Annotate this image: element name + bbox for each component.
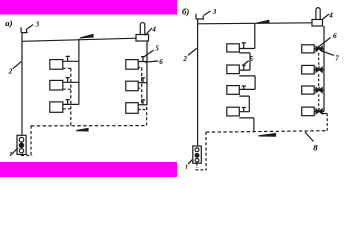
return stub a-L1 — [63, 67, 71, 69]
valve a-L1 — [66, 56, 70, 61]
svg-text:а): а) — [5, 18, 12, 28]
svg-text:1: 1 — [9, 151, 12, 158]
expansion tank 4 (b) — [312, 20, 323, 27]
svg-text:2: 2 — [182, 55, 187, 63]
svg-text:7: 7 — [335, 55, 339, 63]
svg-text:4: 4 — [151, 25, 156, 33]
pump circle bottom (a) — [19, 149, 23, 153]
radiator b-M1 — [227, 44, 240, 52]
leader to label 7 (b) — [320, 50, 334, 55]
heat point unit 1 (a) — [17, 135, 26, 154]
pump circle middle filled (b) — [195, 154, 199, 158]
top supply main (a) — [22, 38, 136, 41]
pump circle middle filled (a) — [19, 143, 23, 147]
pipe b-R4 — [314, 110, 324, 112]
pipe a-L2 — [63, 81, 79, 83]
bowtie valve b-R1 — [316, 46, 322, 52]
magenta highlight bar top — [0, 0, 177, 15]
leader to label 1 (a) — [12, 148, 19, 155]
radiator b-M2 — [227, 65, 240, 74]
dashed bottom link to unit (b) — [195, 169, 207, 171]
return stub a-L3 — [63, 108, 71, 110]
leader to label 6 (a) — [145, 61, 159, 62]
radiator b-R1 — [302, 45, 315, 53]
bowtie valve b-R2 — [316, 66, 322, 72]
pipe a-R2 — [138, 82, 147, 84]
radiator a-L3 — [50, 102, 63, 112]
svg-text:6: 6 — [333, 31, 337, 40]
return below b-R4 — [321, 113, 327, 115]
leader to label 1 (b) — [188, 160, 192, 164]
air collector 3 (diagram a) — [21, 27, 28, 32]
leader to label 5 (b) — [243, 61, 249, 66]
main riser 2 (a) — [21, 33, 23, 136]
pipe a-L3 — [63, 103, 79, 105]
svg-text:5: 5 — [155, 45, 159, 53]
svg-text:1: 1 — [185, 163, 188, 170]
pump circle bottom (b) — [195, 158, 199, 162]
leader to label 4 (b) — [322, 14, 329, 20]
slope wedge on return main (b) — [259, 134, 276, 137]
leader to label 4 (a) — [145, 28, 152, 35]
valve b-M3 — [242, 86, 246, 89]
pump circle top (a) — [19, 137, 24, 142]
valve b-M1 — [242, 43, 246, 49]
svg-text:3: 3 — [212, 8, 217, 16]
slope wedge on supply main (a) — [80, 35, 93, 38]
valve a-R3 — [141, 100, 145, 105]
right supply riser (a) — [146, 41, 148, 105]
dashed return segs b-R — [318, 53, 320, 67]
bowtie valve b-R3 — [316, 87, 322, 93]
return stub a-L2 — [63, 88, 71, 90]
middle supply riser (a) — [78, 39, 80, 105]
dashed return drop below a-R3 — [146, 107, 148, 125]
dashed return main (b) — [206, 131, 327, 133]
magenta highlight bar bottom — [0, 162, 177, 177]
dashed return riser a-L — [70, 68, 72, 126]
return stub a-R1 — [138, 67, 142, 69]
radiator b-R3 — [302, 86, 315, 94]
heat point unit 1 (b) — [193, 146, 202, 163]
valve a-R2 — [141, 78, 145, 83]
leader to label 3 (a) — [27, 25, 33, 29]
svg-text:2: 2 — [8, 68, 13, 76]
radiator b-R2 — [302, 65, 315, 74]
dashed return riser a-R — [141, 68, 143, 105]
svg-text:6: 6 — [159, 58, 163, 66]
pipe b-R1 — [314, 48, 324, 50]
air collector 3 (b) — [196, 14, 204, 19]
return stub a-R2 — [138, 87, 142, 89]
pipe b-R3 — [314, 89, 324, 91]
radiator b-M4 — [227, 107, 240, 116]
slope wedge on supply main (b) — [257, 20, 269, 23]
leader to label 3 (b) — [204, 11, 211, 15]
dashed stub below unit (b) — [196, 163, 198, 168]
dashed return drop to unit (b) — [205, 132, 207, 170]
svg-text:4: 4 — [328, 11, 333, 19]
pipe a-R3 — [138, 104, 147, 106]
pipe a-R1 — [138, 61, 147, 63]
radiator a-L2 — [50, 80, 63, 90]
svg-text:8: 8 — [313, 142, 318, 152]
svg-text:5: 5 — [250, 55, 254, 63]
radiator a-R2 — [126, 81, 138, 91]
valve a-R1 — [141, 57, 145, 62]
svg-text:б): б) — [182, 6, 189, 16]
zigzag one-pipe riser (b middle column) — [239, 24, 255, 132]
svg-text:3: 3 — [35, 21, 40, 29]
leader to label 2 (a) — [13, 62, 22, 69]
leader to label 2 (b) — [188, 48, 197, 55]
pump circle top (b) — [195, 148, 199, 152]
slope wedge on return main (a) — [76, 129, 88, 131]
top supply main (b) — [198, 23, 312, 24]
radiator b-R4 — [302, 107, 315, 116]
dashed return main (a) — [31, 125, 147, 127]
valve a-L3 — [66, 100, 70, 105]
radiator a-R3 — [126, 103, 138, 114]
main riser 2 (b) — [197, 19, 199, 146]
pipe b-R2 — [314, 69, 324, 71]
right supply riser (b) — [323, 26, 325, 112]
bowtie valve b-R4 — [316, 108, 322, 114]
valve b-M4 — [242, 108, 246, 112]
leader to label 6 (b) — [317, 38, 331, 49]
leader to label 8 (b) — [305, 132, 314, 142]
return stub a-R3 — [138, 109, 146, 111]
leader to label 5 (a) — [143, 50, 154, 58]
radiator a-L1 — [50, 60, 63, 70]
expansion tank 4 (a) — [136, 35, 149, 42]
valve b-M2 — [242, 65, 246, 70]
radiator a-R1 — [126, 60, 138, 70]
dashed return drop to unit (a) — [30, 126, 32, 156]
valve a-L2 — [66, 78, 70, 83]
dashed bottom link to unit (a) — [21, 154, 32, 156]
pipe a-L1 — [63, 60, 79, 62]
radiator b-M3 — [227, 86, 240, 95]
